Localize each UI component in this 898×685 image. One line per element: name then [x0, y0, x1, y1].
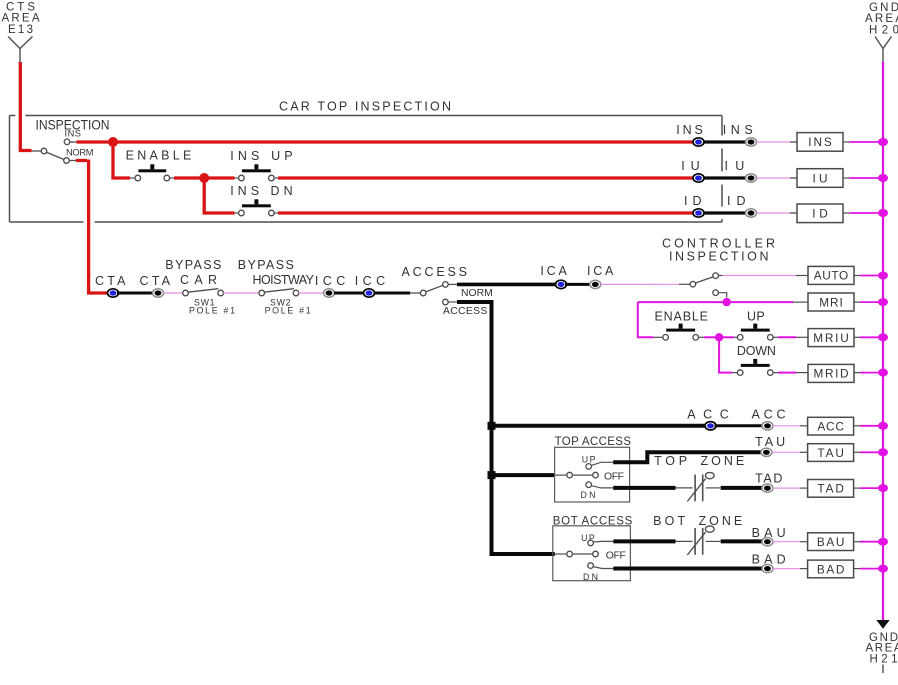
- relay coil AUTO: [808, 266, 854, 284]
- terminal ID (black): [746, 209, 757, 217]
- wire black zone to BAU: [721, 539, 762, 543]
- svg-text:GND: GND: [869, 2, 898, 14]
- relay coil TAD: [808, 480, 854, 498]
- svg-text:AUTO: AUTO: [814, 269, 848, 283]
- wire magenta coil to bus: [854, 372, 860, 374]
- wire black INS link: [702, 140, 746, 143]
- svg-text:IU: IU: [813, 171, 828, 185]
- svg-text:DOWN: DOWN: [737, 344, 776, 358]
- wire magenta coil to bus: [854, 301, 860, 303]
- junction ACC branch: [488, 422, 496, 430]
- switch SW1 BYPASS CAR: [183, 289, 224, 296]
- junction enable/up/dn: [199, 173, 209, 183]
- svg-text:CTA: CTA: [95, 274, 126, 288]
- wire magenta drop to DOWN: [719, 337, 732, 372]
- svg-text:H21: H21: [870, 654, 898, 666]
- wire black ACC branch: [492, 424, 707, 428]
- limit switch BOT ZONE: [676, 526, 721, 555]
- wire pale magenta SW2 to ICC: [299, 292, 325, 294]
- svg-text:INSPECTION: INSPECTION: [669, 250, 769, 264]
- terminal BAU: [762, 538, 773, 546]
- svg-text:AREA: AREA: [865, 13, 898, 25]
- junction bus: [878, 538, 888, 546]
- wire magenta coil to bus: [843, 177, 850, 179]
- relay coil IU: [797, 169, 843, 188]
- terminal ICC (blue): [364, 289, 375, 297]
- terminal IU (black): [746, 174, 757, 182]
- svg-text:TOP: TOP: [654, 454, 687, 468]
- wire pale magenta ICA to controller switch: [601, 283, 680, 285]
- svg-text:BOT: BOT: [653, 514, 685, 528]
- wire to UP junction: [698, 336, 704, 338]
- wire magenta ground bus: [882, 62, 884, 620]
- wire magenta coil to bus: [854, 336, 860, 338]
- box BOT ACCESS: [553, 526, 631, 581]
- pushbutton DOWN: [737, 359, 773, 376]
- wire red ID row: [274, 212, 279, 214]
- terminal CTA (black): [153, 289, 164, 297]
- svg-text:IU: IU: [725, 159, 745, 173]
- svg-text:MRID: MRID: [814, 367, 849, 381]
- wire red INS row: [70, 141, 77, 143]
- svg-text:ID: ID: [684, 194, 702, 208]
- relay coil MRID: [808, 364, 854, 382]
- terminal ACC (blue): [705, 422, 716, 430]
- svg-text:CAR: CAR: [180, 273, 217, 287]
- node CTS AREA E13: [2, 2, 40, 63]
- svg-text:TAU: TAU: [817, 446, 844, 460]
- terminal INS (blue): [693, 138, 704, 146]
- wire ID to coil: [757, 212, 791, 214]
- junction bus: [878, 298, 888, 306]
- wire black UP to zone: [593, 540, 614, 543]
- wire black NORM run: [448, 283, 457, 285]
- svg-text:OFF: OFF: [604, 471, 624, 482]
- relay coil MRI: [808, 293, 854, 311]
- wire black ACCESS trunk: [448, 301, 457, 303]
- wire black ACC link: [715, 424, 763, 427]
- wire to MRID coil: [773, 372, 778, 374]
- svg-text:BOT ACCESS: BOT ACCESS: [553, 516, 633, 528]
- relay coil BAU: [808, 533, 854, 551]
- terminal ID (blue): [693, 209, 704, 217]
- wire red drop to ENABLE: [113, 142, 130, 178]
- wire red IU row: [274, 177, 279, 179]
- svg-text:TAD: TAD: [817, 482, 844, 496]
- wire black to TOP ACCESS: [492, 473, 555, 477]
- wire magenta coil to bus: [853, 487, 860, 489]
- svg-text:ID: ID: [727, 194, 746, 208]
- svg-text:ENABLE: ENABLE: [655, 310, 709, 324]
- switch BOT ACCESS (UP/OFF/DN): [567, 540, 599, 568]
- svg-text:BAU: BAU: [752, 526, 786, 540]
- svg-text:TOP ACCESS: TOP ACCESS: [555, 436, 632, 448]
- wire magenta drop to ENABLE: [638, 302, 654, 337]
- wire magenta coil to bus: [843, 212, 850, 214]
- terminal CTA (blue): [108, 289, 119, 297]
- terminal ICA (black): [590, 280, 601, 288]
- wire black ICC to ACCESS switch: [374, 292, 410, 295]
- svg-text:CONTROLLER: CONTROLLER: [662, 237, 775, 251]
- svg-text:NORM: NORM: [461, 288, 493, 299]
- svg-text:UP: UP: [582, 455, 596, 465]
- junction bus: [878, 209, 888, 217]
- wire red NORM drop to CTA: [69, 160, 76, 162]
- wire black DN to zone: [591, 486, 613, 488]
- pushbutton INS UP: [239, 164, 275, 181]
- svg-text:E13: E13: [8, 24, 33, 36]
- pushbutton ENABLE: [135, 164, 170, 181]
- terminal ICA (blue): [556, 280, 567, 288]
- junction bus: [878, 369, 888, 377]
- relay coil TAU: [808, 444, 854, 462]
- wire pale magenta SW1 to SW2: [223, 292, 259, 294]
- svg-text:UP: UP: [747, 310, 765, 324]
- svg-text:ID: ID: [812, 207, 828, 221]
- junction bus: [878, 333, 888, 341]
- junction TOP ACCESS branch: [488, 471, 496, 479]
- switch TOP ACCESS (UP/OFF/DN): [555, 464, 599, 488]
- svg-text:MRI: MRI: [819, 295, 843, 309]
- relay coil ACC: [808, 417, 854, 435]
- wire to TAD coil: [773, 487, 800, 489]
- junction INS/enable: [108, 137, 118, 147]
- terminal TAD: [762, 484, 773, 492]
- wire magenta coil to bus: [853, 451, 860, 453]
- wire red ENABLE to junction: [169, 177, 174, 179]
- svg-text:TAD: TAD: [755, 472, 782, 486]
- wire contact elbow to MRI node: [718, 293, 727, 298]
- junction bus: [878, 174, 888, 182]
- wire magenta MRI row: [638, 301, 793, 303]
- wire to BAD coil: [773, 568, 800, 570]
- svg-text:POLE #1: POLE #1: [265, 305, 311, 315]
- box CAR TOP INSPECTION enclosure: [10, 100, 723, 223]
- svg-text:BAD: BAD: [752, 553, 786, 567]
- terminal BAD: [762, 564, 773, 572]
- wire magenta coil to bus: [853, 568, 860, 570]
- switch CONTROLLER INSPECTION: [690, 273, 718, 296]
- relay coil BAD: [808, 560, 854, 578]
- node GND AREA H20: [865, 2, 898, 62]
- wire pale magenta CTA to SW1: [163, 292, 183, 294]
- wire black ID link: [702, 211, 746, 214]
- wire magenta coil to bus: [853, 541, 860, 543]
- wire IU to coil: [757, 177, 791, 179]
- pushbutton ENABLE (controller): [663, 324, 699, 341]
- terminal ICC (black): [324, 289, 335, 297]
- wire black UP to TAU: [591, 462, 613, 465]
- svg-text:OFF: OFF: [606, 550, 626, 561]
- wire thin into BOT ACCESS: [555, 553, 568, 555]
- pushbutton INS DN: [239, 199, 275, 216]
- svg-text:MRIU: MRIU: [813, 331, 849, 345]
- switch INSPECTION (INS/NORM selector): [32, 117, 110, 164]
- wire magenta coil to bus: [853, 425, 860, 427]
- wire black IU link: [702, 176, 746, 179]
- svg-text:NORM: NORM: [66, 148, 94, 158]
- wire INS to coil: [757, 141, 791, 143]
- node UP/DOWN junction: [715, 333, 723, 341]
- relay coil ID: [797, 204, 843, 223]
- node GND AREA H21: [866, 620, 898, 673]
- wire black ICA link: [565, 283, 590, 286]
- wire black DN to BAD: [593, 567, 614, 569]
- wire black CTA link: [117, 292, 153, 295]
- switch SW2 BYPASS HOISTWAY: [259, 289, 299, 296]
- terminal TAU: [761, 448, 772, 456]
- svg-text:TAU: TAU: [755, 435, 785, 449]
- svg-text:BAU: BAU: [817, 535, 845, 549]
- svg-text:CAR TOP INSPECTION: CAR TOP INSPECTION: [279, 100, 451, 114]
- svg-text:ACCESS: ACCESS: [443, 306, 487, 317]
- svg-text:ACC: ACC: [752, 408, 786, 422]
- wire magenta coil to bus: [843, 141, 850, 143]
- junction bus: [878, 138, 888, 146]
- junction bus: [878, 272, 888, 280]
- wire red to INS UP: [209, 176, 235, 179]
- wire to BAU coil: [773, 541, 800, 543]
- svg-text:INS: INS: [65, 129, 82, 139]
- wire junction to UP button: [719, 336, 734, 338]
- svg-text:HOISTWAY: HOISTWAY: [253, 273, 315, 287]
- svg-text:ACC: ACC: [817, 419, 844, 433]
- terminal INS (black): [746, 138, 757, 146]
- wire red drop to INS DN: [204, 178, 234, 213]
- box TOP ACCESS: [555, 447, 630, 502]
- node MRI junction: [723, 298, 731, 306]
- pushbutton UP: [737, 324, 773, 341]
- svg-text:ACC: ACC: [687, 408, 729, 422]
- junction bus: [878, 448, 888, 456]
- wire to MRIU coil: [773, 336, 778, 338]
- junction bus: [878, 422, 888, 430]
- terminal ACC (black): [762, 422, 773, 430]
- svg-text:BAD: BAD: [817, 562, 845, 576]
- svg-text:POLE #1: POLE #1: [189, 305, 235, 315]
- svg-text:IU: IU: [681, 159, 699, 173]
- relay coil MRIU: [808, 329, 854, 347]
- svg-text:H20: H20: [869, 25, 898, 37]
- limit switch TOP ZONE: [676, 472, 721, 501]
- terminal IU (blue): [693, 174, 704, 182]
- wire black ICC link: [334, 292, 364, 295]
- wire magenta coil to bus: [854, 275, 860, 277]
- svg-text:CTA: CTA: [140, 274, 171, 288]
- wire to AUTO coil: [718, 275, 723, 277]
- wire black zone to TAD: [721, 486, 762, 490]
- wire red feed from E13: [20, 62, 31, 151]
- junction bus: [878, 565, 888, 573]
- wire to ACC coil: [773, 425, 800, 427]
- relay coil INS: [797, 133, 843, 152]
- wire to TAU coil: [772, 451, 800, 453]
- junction bus: [878, 484, 888, 492]
- switch ACCESS (NORM/ACCESS selector): [420, 282, 448, 305]
